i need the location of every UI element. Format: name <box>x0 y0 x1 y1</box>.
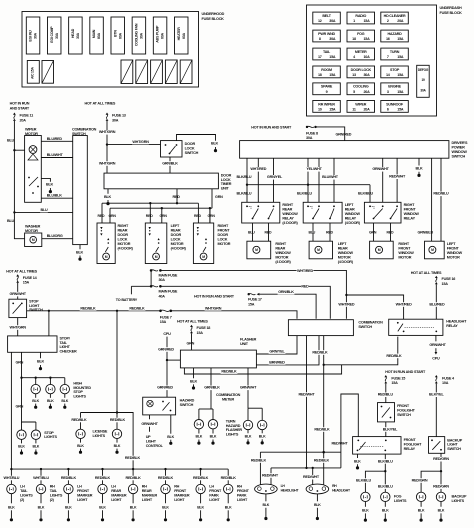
wire WHT/GRN from fuse 13 to door lock timer <box>106 121 108 173</box>
fuse 8 30A symbol <box>306 126 308 128</box>
svg-text:BLU/WHT: BLU/WHT <box>322 175 339 179</box>
svg-text:30A: 30A <box>159 278 166 282</box>
svg-text:BLK: BLK <box>77 444 84 448</box>
svg-text:BLK: BLK <box>32 399 39 403</box>
svg-text:WINDOW: WINDOW <box>282 212 298 216</box>
svg-text:TAIL: TAIL <box>323 50 331 54</box>
svg-text:DRIVER'S: DRIVER'S <box>452 141 469 145</box>
svg-text:ENGINE: ENGINE <box>388 85 401 89</box>
fuse RADIO 1 15A <box>347 12 375 24</box>
svg-text:(4 DOOR): (4 DOOR) <box>345 221 361 225</box>
svg-text:BLK: BLK <box>99 505 106 509</box>
svg-text:M: M <box>431 248 434 252</box>
empty fuse slot <box>151 60 163 84</box>
svg-text:COMBINATION: COMBINATION <box>72 127 97 131</box>
svg-text:LEFT: LEFT <box>447 242 456 246</box>
fuse COOLING 5 20A <box>347 83 375 95</box>
svg-text:RED: RED <box>301 285 309 289</box>
svg-text:HOT IN RUN AND START: HOT IN RUN AND START <box>385 370 426 374</box>
wire BLK hazard ground <box>170 415 172 434</box>
svg-text:LOCK: LOCK <box>218 237 228 241</box>
svg-text:LIGHTS: LIGHTS <box>226 433 239 437</box>
wire GRN relay 3 to motor 3 <box>373 223 375 241</box>
wire GRN/RED CPU to hazard switch <box>166 337 168 398</box>
LH FRONT MARKER LIGHT lamp <box>67 468 69 470</box>
svg-text:GRN/RED: GRN/RED <box>158 347 174 351</box>
svg-text:LOCK: LOCK <box>171 237 181 241</box>
svg-text:DOOR LOCK: DOOR LOCK <box>351 68 372 72</box>
svg-text:BLU/RED: BLU/RED <box>47 137 63 141</box>
svg-text:RED: RED <box>98 214 106 218</box>
wire BRN/RED flasher to combination switch <box>256 336 319 365</box>
svg-text:CHECKER: CHECKER <box>60 350 78 354</box>
svg-text:BLK: BLK <box>245 435 252 439</box>
svg-text:REAR: REAR <box>118 228 128 232</box>
svg-text:30A: 30A <box>76 32 80 39</box>
RH TAIL LIGHTS (2) lamp <box>40 468 42 470</box>
RH REAR MARKER LIGHT lamp <box>132 468 134 470</box>
fuse ROOM 18 15A <box>313 66 341 78</box>
svg-text:15A: 15A <box>329 107 336 111</box>
svg-text:LEFT: LEFT <box>171 224 180 228</box>
svg-text:HIGH: HIGH <box>73 381 82 385</box>
svg-text:5: 5 <box>353 90 355 94</box>
fuse 17 15A symbol <box>248 293 250 295</box>
svg-text:RH: RH <box>237 484 242 488</box>
svg-text:FRONT: FRONT <box>398 246 411 250</box>
fuse 11 20A symbol <box>13 113 16 115</box>
svg-text:HOT IN RUN: HOT IN RUN <box>10 102 30 106</box>
right front window motor <box>370 241 394 259</box>
svg-text:10A: 10A <box>442 381 449 385</box>
fuse 16 15A symbol <box>435 276 438 278</box>
svg-text:BLK: BLK <box>418 508 425 512</box>
svg-text:BLK: BLK <box>104 195 112 199</box>
svg-text:RED/BLK: RED/BLK <box>221 476 237 480</box>
svg-text:BLK: BLK <box>314 503 321 507</box>
wire battery feed vertical to license lights <box>116 311 118 413</box>
svg-text:FLASHER: FLASHER <box>226 428 243 432</box>
stop lights <box>21 422 23 430</box>
wire tail light bus <box>11 468 228 470</box>
ground <box>357 464 359 467</box>
svg-text:WHT/GRN: WHT/GRN <box>205 306 222 310</box>
svg-text:BLK/BLU: BLK/BLU <box>297 192 312 196</box>
svg-text:WHT/RED: WHT/RED <box>250 167 266 171</box>
fuse 18 15A symbol <box>190 325 193 327</box>
svg-text:ABS PUMP: ABS PUMP <box>156 25 160 43</box>
svg-text:RED/BLK: RED/BLK <box>71 418 87 422</box>
svg-text:HOT AT ALL TIMES: HOT AT ALL TIMES <box>6 270 37 274</box>
fuse SPARE 9 <box>313 83 341 95</box>
wire RED/BLK license light feed <box>81 413 134 470</box>
svg-text:LIGHT: LIGHT <box>142 498 153 502</box>
fuse RR WIPER 10 15A <box>313 101 341 113</box>
svg-text:M: M <box>317 248 320 252</box>
svg-text:GRN: GRN <box>215 195 223 199</box>
fuse ABS PUMP 60A <box>153 17 167 54</box>
svg-text:COMBINATION: COMBINATION <box>358 320 383 324</box>
svg-text:FRONT: FRONT <box>218 228 231 232</box>
svg-text:RED: RED <box>146 214 154 218</box>
svg-text:2: 2 <box>387 19 389 23</box>
svg-text:RELAY: RELAY <box>404 216 416 220</box>
svg-text:COOLING: COOLING <box>353 85 369 89</box>
wire BLU/BLK <box>41 197 72 199</box>
main fuse 30A line WHT/RED <box>150 269 153 272</box>
left rear door lock motor <box>145 223 167 264</box>
svg-text:30A: 30A <box>140 32 144 39</box>
svg-text:FUSE BLOCK: FUSE BLOCK <box>202 17 225 21</box>
svg-text:LIGHTS: LIGHTS <box>394 499 407 503</box>
svg-text:DOOR: DOOR <box>221 173 232 177</box>
driver's power window switch <box>240 141 449 159</box>
svg-text:RH: RH <box>332 484 337 488</box>
wire RED relay 1 to motor 1 <box>268 223 270 241</box>
wire RED/WHT arch to front foglight relay <box>341 394 358 468</box>
wire RED/BLK headlight low beam bus <box>260 451 341 453</box>
svg-text:MAIN FUSE: MAIN FUSE <box>159 273 178 277</box>
right rear window relay <box>242 202 280 223</box>
right front door lock motor <box>193 223 213 264</box>
svg-text:BLK: BLK <box>210 435 217 439</box>
svg-text:FUSE BLOCK: FUSE BLOCK <box>440 11 463 15</box>
underhood fuse block outline <box>22 12 199 88</box>
svg-text:30A: 30A <box>306 136 313 140</box>
svg-text:BLK: BLK <box>162 505 169 509</box>
svg-text:BLK: BLK <box>362 508 369 512</box>
svg-text:WHT/RED: WHT/RED <box>396 302 412 306</box>
svg-text:30A: 30A <box>55 32 59 39</box>
svg-text:15A: 15A <box>397 37 404 41</box>
svg-text:M: M <box>202 255 205 259</box>
svg-text:13: 13 <box>352 73 356 77</box>
svg-text:30A: 30A <box>329 19 336 23</box>
svg-text:GRN: GRN <box>109 214 117 218</box>
svg-text:WHT/RED: WHT/RED <box>297 269 313 273</box>
svg-text:MOTOR: MOTOR <box>118 242 131 246</box>
fuse HAZARD 16 15A <box>381 30 409 42</box>
wire RED/BLU fuse 15 to foglight switch <box>385 383 387 402</box>
empty fuse slot <box>165 60 177 84</box>
svg-text:FUSE 7: FUSE 7 <box>160 315 172 319</box>
svg-text:WHT/BLU: WHT/BLU <box>33 476 49 480</box>
svg-text:HOT AT ALL TIMES: HOT AT ALL TIMES <box>85 102 116 106</box>
svg-text:TURN: TURN <box>226 419 236 423</box>
svg-text:15A: 15A <box>23 281 30 285</box>
svg-text:LIGHT: LIGHT <box>237 498 248 502</box>
svg-text:GRN: GRN <box>187 341 195 345</box>
svg-text:RED/BLK: RED/BLK <box>129 306 145 310</box>
svg-text:FRONT: FRONT <box>77 489 90 493</box>
ground <box>170 440 172 443</box>
wire BLU main feed from fuse 11 <box>14 121 24 239</box>
fuse MAIN 80A <box>90 17 104 54</box>
svg-text:GRN: GRN <box>16 361 24 365</box>
door lock switch <box>161 141 183 157</box>
svg-text:METER: METER <box>355 50 367 54</box>
svg-text:GRN/WHT: GRN/WHT <box>372 167 389 171</box>
svg-text:RED/BLK: RED/BLK <box>110 418 126 422</box>
fuse WIPER 11 20A <box>347 101 375 113</box>
svg-text:GRN/YEL: GRN/YEL <box>267 175 283 179</box>
svg-text:LEFT: LEFT <box>338 242 347 246</box>
left rear window relay <box>303 202 342 223</box>
svg-text:15A: 15A <box>363 19 370 23</box>
wire BLU/WHT <box>41 157 72 159</box>
wire BLK door lock switch ground <box>177 135 216 141</box>
wire GRN/YEL to right rear window relay <box>273 158 275 202</box>
svg-text:BLK: BLK <box>130 505 137 509</box>
svg-text:FUSE 15: FUSE 15 <box>391 376 405 380</box>
svg-text:GRN/WHT: GRN/WHT <box>141 422 158 426</box>
svg-text:WHT/GRN: WHT/GRN <box>99 161 116 165</box>
fuse ENGINE 3 15A <box>381 83 409 95</box>
svg-text:BLK: BLK <box>196 435 203 439</box>
fuse DOOR LOCK 13 30A <box>347 66 375 78</box>
svg-text:19: 19 <box>421 78 425 82</box>
svg-text:PARK: PARK <box>237 493 247 497</box>
backup light switch <box>429 437 445 454</box>
svg-text:REAR: REAR <box>282 207 292 211</box>
ground <box>418 172 420 175</box>
right rear window motor <box>247 241 271 259</box>
svg-text:BLK: BLK <box>225 505 232 509</box>
svg-text:WINDOW: WINDOW <box>447 251 463 255</box>
fuse EGI COMP 30A <box>47 17 61 54</box>
svg-text:BLK/BLU: BLK/BLU <box>378 459 393 463</box>
svg-text:RADIO: RADIO <box>355 14 366 18</box>
ground <box>107 200 109 203</box>
svg-text:LEFT: LEFT <box>345 203 354 207</box>
svg-text:MARKER: MARKER <box>111 493 127 497</box>
svg-text:EGI COMP: EGI COMP <box>50 26 54 43</box>
svg-text:HAZARD: HAZARD <box>180 398 195 402</box>
svg-text:60A: 60A <box>182 32 186 39</box>
svg-text:BLU/ORG: BLU/ORG <box>47 234 63 238</box>
svg-text:RED: RED <box>173 195 181 199</box>
svg-text:GRN/WHT: GRN/WHT <box>429 343 446 347</box>
svg-text:15A: 15A <box>391 381 398 385</box>
svg-text:WHT/GRN: WHT/GRN <box>10 325 27 329</box>
wire BLK switch ground <box>418 158 420 165</box>
wire RED/BLK branch to headlight relay <box>324 337 398 365</box>
wire RED/WHT to RH headlight <box>312 468 314 485</box>
svg-text:BLK: BLK <box>61 399 68 403</box>
left front window motor <box>425 241 445 259</box>
svg-text:BLU: BLU <box>309 231 316 235</box>
combination switch (lighting) <box>288 320 353 336</box>
svg-text:20A: 20A <box>20 119 27 123</box>
svg-text:BLK: BLK <box>263 503 270 507</box>
fuse BELT 12 30A <box>313 12 341 24</box>
svg-text:WINDOW: WINDOW <box>404 212 420 216</box>
svg-text:FUSE 13: FUSE 13 <box>112 114 126 118</box>
empty fuse slot <box>180 60 192 84</box>
svg-text:RELAY: RELAY <box>404 447 416 451</box>
svg-text:7: 7 <box>387 55 389 59</box>
svg-text:FRONT: FRONT <box>237 489 250 493</box>
svg-text:(4 DOOR): (4 DOOR) <box>275 260 291 264</box>
svg-text:HEADLIGHT: HEADLIGHT <box>281 489 300 493</box>
wire RED/BLK stop light feed line <box>27 310 160 312</box>
svg-text:WIPER: WIPER <box>25 127 37 131</box>
svg-text:RIGHT: RIGHT <box>404 203 415 207</box>
svg-text:FRONT: FRONT <box>404 207 417 211</box>
svg-text:UNIT: UNIT <box>221 187 230 191</box>
svg-text:GRN: GRN <box>208 214 216 218</box>
svg-text:30A: 30A <box>363 73 370 77</box>
svg-text:BLK: BLK <box>354 459 361 463</box>
svg-text:RED/BLK: RED/BLK <box>386 354 402 358</box>
wire BLK/YEL foglight switch to relay <box>385 422 387 437</box>
front foglight relay <box>353 437 401 455</box>
svg-text:15A: 15A <box>397 55 404 59</box>
wire RED relay 3 to motor 3 <box>390 223 392 241</box>
svg-text:STOP: STOP <box>390 68 400 72</box>
svg-text:LOCK: LOCK <box>185 146 195 150</box>
svg-text:RH: RH <box>142 484 147 488</box>
svg-text:60A: 60A <box>161 32 165 39</box>
svg-text:SWITCH: SWITCH <box>185 151 199 155</box>
wire WHT/RED branch to headlight relay <box>346 295 403 319</box>
wire to wiper motor <box>14 149 24 151</box>
svg-text:REAR: REAR <box>345 207 355 211</box>
svg-text:FRONT: FRONT <box>209 489 222 493</box>
wire BLK combination switch ground <box>79 245 81 250</box>
svg-text:BLK: BLK <box>382 508 389 512</box>
svg-text:TIMER: TIMER <box>221 182 232 186</box>
svg-text:BLK: BLK <box>33 445 40 449</box>
svg-text:MOTOR: MOTOR <box>171 242 184 246</box>
wire RED/BLK combination switch to headlights <box>323 336 325 453</box>
svg-text:FUSE 14: FUSE 14 <box>23 276 38 280</box>
svg-text:GRN: GRN <box>16 405 24 409</box>
svg-text:REAR: REAR <box>275 246 285 250</box>
svg-text:15A: 15A <box>442 282 449 286</box>
svg-text:MOTOR: MOTOR <box>218 242 231 246</box>
LH REAR MARKER LIGHT lamp <box>101 468 103 470</box>
svg-text:RED/BLK: RED/BLK <box>251 458 267 462</box>
svg-text:MOTOR: MOTOR <box>398 255 411 259</box>
svg-text:FUSE 4: FUSE 4 <box>442 376 455 380</box>
svg-text:RIGHT: RIGHT <box>275 242 286 246</box>
svg-text:BLK/BLU: BLK/BLU <box>356 478 371 482</box>
svg-text:GRN/BLU: GRN/BLU <box>418 231 434 235</box>
svg-text:REAR: REAR <box>142 489 152 493</box>
wire RED/BLK flasher feed from combination switch <box>184 365 341 374</box>
front foglight switch <box>378 403 395 422</box>
svg-text:BLU: BLU <box>7 139 15 143</box>
svg-text:8: 8 <box>319 37 321 41</box>
svg-text:BLU: BLU <box>248 231 255 235</box>
empty fuse slot <box>136 60 148 84</box>
wire BLU to combination switch <box>14 211 72 213</box>
svg-text:RED/WHT: RED/WHT <box>303 475 320 479</box>
svg-text:DOOR: DOOR <box>171 233 182 237</box>
svg-text:MARKER: MARKER <box>77 493 93 497</box>
svg-text:BLU: BLU <box>40 208 48 212</box>
svg-text:DEFOG: DEFOG <box>418 68 429 72</box>
svg-text:15A: 15A <box>397 90 404 94</box>
svg-text:(4 DOOR): (4 DOOR) <box>282 221 298 225</box>
svg-text:WINDOW: WINDOW <box>275 251 291 255</box>
svg-text:SWITCH: SWITCH <box>29 308 43 312</box>
wire checker feed from RED/BLK line <box>48 311 50 336</box>
svg-text:FRONT: FRONT <box>397 404 410 408</box>
svg-text:EGI INJ: EGI INJ <box>29 30 33 41</box>
svg-text:FLASHER: FLASHER <box>240 337 257 341</box>
svg-text:RED/BLK: RED/BLK <box>95 476 111 480</box>
svg-text:GRN: GRN <box>369 231 377 235</box>
svg-text:BLK: BLK <box>46 183 54 187</box>
svg-text:(4 DOOR): (4 DOOR) <box>118 246 134 250</box>
svg-text:16: 16 <box>386 37 390 41</box>
svg-text:BLK: BLK <box>211 141 219 145</box>
svg-text:A/C 15A: A/C 15A <box>31 67 35 79</box>
svg-text:UP: UP <box>146 435 151 439</box>
fuse BTN 60A <box>111 17 125 54</box>
svg-text:BTN: BTN <box>113 30 117 37</box>
svg-text:30A: 30A <box>329 37 336 41</box>
svg-text:FUSE 8: FUSE 8 <box>306 131 318 135</box>
svg-text:(4 DOOR): (4 DOOR) <box>171 246 187 250</box>
svg-text:FOGLIGHT: FOGLIGHT <box>404 443 423 447</box>
svg-text:RELAY: RELAY <box>345 216 357 220</box>
hazard switch <box>143 397 176 415</box>
wire GRN/BLK flasher to combination meter <box>210 368 212 409</box>
svg-text:CPU: CPU <box>163 332 171 336</box>
svg-text:RED/WHT: RED/WHT <box>262 473 279 477</box>
svg-text:SPARE: SPARE <box>321 85 333 89</box>
wire GRN/WHT fuse 14 to stop light switch <box>17 283 19 300</box>
ground <box>193 384 195 387</box>
svg-text:METER: METER <box>222 398 235 402</box>
wire BLU/WHT to left rear window relay <box>333 158 335 202</box>
wire BLK foglight relay ground <box>357 454 359 458</box>
svg-text:WHT/GRN: WHT/GRN <box>99 130 116 134</box>
svg-text:M: M <box>378 248 381 252</box>
right rear door lock motor <box>97 223 115 264</box>
wire GRN/WHT headlight relay to CPU <box>435 335 437 341</box>
svg-text:RIGHT: RIGHT <box>282 203 293 207</box>
fuse SUNROOF 6 15A <box>381 101 409 113</box>
svg-text:10A: 10A <box>363 55 370 59</box>
svg-text:RED: RED <box>265 231 273 235</box>
svg-text:15A: 15A <box>363 37 370 41</box>
svg-text:MOUNTED: MOUNTED <box>73 386 91 390</box>
svg-text:BLK/YEL: BLK/YEL <box>429 393 444 397</box>
svg-text:ROOM: ROOM <box>321 68 332 72</box>
ground <box>49 188 51 191</box>
svg-text:FUSE 17: FUSE 17 <box>248 298 262 302</box>
wire RED/GRN branch to left backup light <box>421 471 441 492</box>
wire BLK/BLU branch to left fog light <box>365 471 385 492</box>
svg-text:LIGHT: LIGHT <box>111 498 122 502</box>
wire RED/BLU to left front window motor <box>440 158 442 241</box>
svg-text:UNDERDASH: UNDERDASH <box>440 6 462 10</box>
svg-text:15A: 15A <box>329 55 336 59</box>
wire YEL/WHT to left rear window relay <box>318 158 320 202</box>
wire GRN/YEL flasher to combination switch <box>256 336 297 354</box>
svg-text:RED/BLK: RED/BLK <box>126 476 142 480</box>
RH FRONT MARKER LIGHT lamp <box>164 468 166 470</box>
svg-text:HEADLIGHT: HEADLIGHT <box>332 489 351 493</box>
svg-text:12: 12 <box>318 19 322 23</box>
fuse 14 15A symbol <box>16 274 19 276</box>
svg-text:LIGHTS: LIGHTS <box>73 395 86 399</box>
svg-text:15A: 15A <box>197 331 204 335</box>
